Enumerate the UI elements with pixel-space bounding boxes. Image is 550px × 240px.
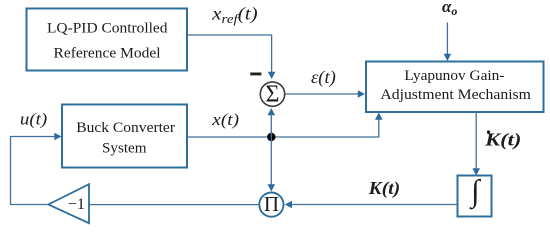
block: LQ-PID Controlled Reference Model — [27, 9, 188, 71]
wire: gain triangle feedback to buck input u(t) — [11, 133, 62, 205]
label Kdot(t) — [484, 130, 522, 150]
gain -1 triangle — [48, 184, 89, 223]
svg-text:x(t): x(t) — [211, 110, 239, 129]
wire: product to gain triangle — [89, 204, 258, 206]
svg-text:Buck Converter: Buck Converter — [76, 119, 175, 136]
wire: alpha into Lyapunov — [444, 23, 452, 62]
wire: Lyapunov down to integrator (Kdot) — [472, 112, 480, 176]
svg-text:Reference Model: Reference Model — [54, 45, 161, 62]
svg-text:Adjustment Mechanism: Adjustment Mechanism — [380, 86, 531, 103]
wire: integrator to product (K) — [285, 201, 458, 209]
minus sign — [250, 73, 261, 76]
svg-text:u(t): u(t) — [20, 110, 48, 129]
svg-text:−1: −1 — [68, 195, 85, 213]
block: Buck Converter System — [62, 105, 187, 168]
wire: buck output x(t) to node and Lyapunov bottom — [187, 113, 383, 138]
block: Lyapunov Gain-Adjustment Mechanism — [366, 62, 544, 113]
svg-text:Π: Π — [264, 192, 279, 216]
svg-text:K(t): K(t) — [368, 178, 401, 198]
svg-text:ε(t): ε(t) — [311, 67, 336, 87]
wire: xref from model to sum — [187, 35, 275, 79]
svg-text:LQ-PID Controlled: LQ-PID Controlled — [47, 20, 168, 37]
block: integrator — [458, 173, 492, 217]
product junction — [259, 192, 283, 217]
svg-text:Σ: Σ — [266, 82, 280, 108]
wire: node up into sum — [268, 108, 276, 137]
node — [267, 133, 275, 141]
summation junction — [260, 82, 284, 108]
wire: sum to Lyapunov (epsilon) — [285, 90, 365, 98]
wire: node down into product — [268, 137, 276, 192]
svg-text:Lyapunov Gain-: Lyapunov Gain- — [404, 67, 504, 84]
svg-text:System: System — [102, 140, 147, 157]
